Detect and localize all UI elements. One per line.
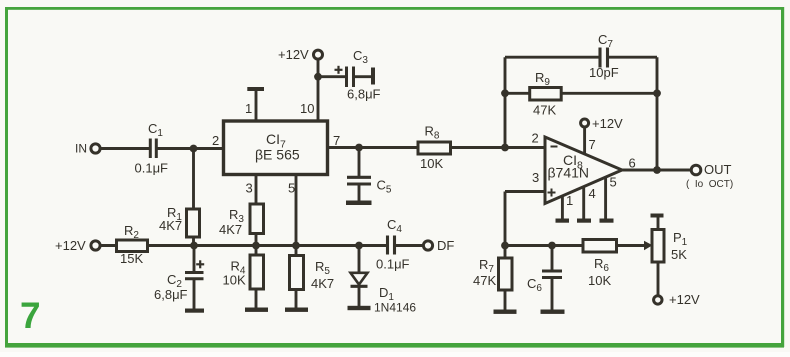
svg-text:DF: DF	[437, 238, 454, 253]
svg-text:( Io OCT): ( Io OCT)	[686, 179, 733, 190]
svg-text:10: 10	[300, 101, 314, 116]
svg-text:6,8μF: 6,8μF	[347, 87, 381, 102]
svg-text:7: 7	[333, 133, 340, 148]
svg-text:4K7: 4K7	[311, 276, 334, 291]
svg-text:2: 2	[532, 131, 539, 146]
svg-text:10pF: 10pF	[589, 65, 619, 80]
svg-text:OUT: OUT	[704, 162, 732, 177]
svg-text:4K7: 4K7	[159, 218, 182, 233]
svg-text:5K: 5K	[671, 247, 687, 262]
svg-text:+12V: +12V	[669, 292, 700, 307]
svg-text:+12V: +12V	[592, 116, 623, 131]
svg-text:0.1μF: 0.1μF	[376, 257, 410, 272]
svg-text:1: 1	[245, 101, 252, 116]
svg-text:+12V: +12V	[278, 47, 309, 62]
svg-text:10K: 10K	[223, 273, 246, 288]
svg-text:10K: 10K	[588, 273, 611, 288]
svg-text:4: 4	[589, 186, 596, 201]
svg-text:3: 3	[246, 181, 253, 196]
svg-text:β741N: β741N	[548, 165, 590, 181]
svg-text:10K: 10K	[420, 156, 443, 171]
svg-text:5: 5	[288, 181, 295, 196]
svg-text:0.1μF: 0.1μF	[135, 161, 169, 176]
svg-text:+12V: +12V	[55, 238, 86, 253]
svg-text:1N4146: 1N4146	[374, 301, 416, 315]
svg-text:7: 7	[20, 295, 41, 336]
svg-text:47K: 47K	[473, 273, 496, 288]
svg-text:15K: 15K	[120, 251, 143, 266]
svg-text:5: 5	[610, 175, 617, 190]
svg-text:6: 6	[629, 156, 636, 171]
svg-text:47K: 47K	[533, 103, 556, 118]
svg-text:4K7: 4K7	[219, 222, 242, 237]
svg-text:6,8μF: 6,8μF	[154, 287, 188, 302]
svg-text:βE 565: βE 565	[255, 147, 300, 163]
svg-text:7: 7	[589, 137, 596, 152]
svg-text:2: 2	[212, 133, 219, 148]
svg-text:IN: IN	[75, 142, 87, 156]
svg-text:1: 1	[566, 193, 573, 208]
svg-text:3: 3	[532, 170, 539, 185]
